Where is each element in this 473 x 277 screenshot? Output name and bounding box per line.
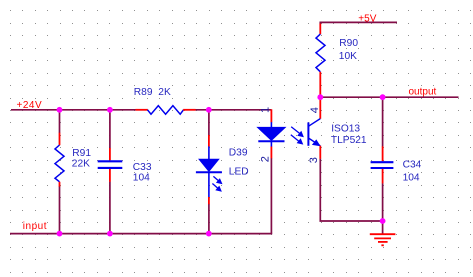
svg-text:D39: D39 <box>229 148 248 159</box>
svg-text:2K: 2K <box>158 87 171 98</box>
svg-text:input: input <box>23 221 47 232</box>
wire emitter to ground run <box>320 159 382 221</box>
wire C33 branch <box>109 110 111 234</box>
wire R91 branch <box>59 110 61 234</box>
wire C34 branch <box>382 97 384 221</box>
junction bottom D39 <box>206 231 212 237</box>
svg-text:10K: 10K <box>339 51 357 62</box>
wire D39 branch <box>208 110 210 234</box>
svg-text:output: output <box>409 86 437 97</box>
svg-text:LED: LED <box>229 167 249 178</box>
svg-text:R90: R90 <box>339 38 358 49</box>
capacitor C34 <box>371 146 422 183</box>
resistor R91 <box>55 133 91 187</box>
svg-text:C34: C34 <box>403 160 422 171</box>
junction bottom C33 <box>107 231 113 237</box>
ground <box>370 221 396 245</box>
svg-text:+24V: +24V <box>17 100 43 111</box>
junction output node <box>317 94 323 100</box>
wire +5V rail <box>320 22 397 24</box>
svg-text:22K: 22K <box>72 158 90 169</box>
svg-text:+5V: +5V <box>358 14 376 25</box>
resistor R90 <box>316 24 358 98</box>
svg-text:104: 104 <box>403 172 420 183</box>
wire output net <box>320 96 458 98</box>
svg-text:R91: R91 <box>72 148 91 159</box>
svg-text:TLP521: TLP521 <box>331 135 367 146</box>
junction top R91 <box>57 107 63 113</box>
opto LED of ISO13 (anode pin 1 / cathode pin 2) <box>258 109 286 158</box>
junction top C33 <box>107 107 113 113</box>
resistor R89 <box>134 87 196 114</box>
junction C34 bottom / ground <box>380 218 386 224</box>
wire opto LED branch corner <box>270 158 272 234</box>
svg-text:R89: R89 <box>134 87 153 98</box>
junction bottom R91 <box>57 231 63 237</box>
wire bottom rail input net <box>10 233 272 235</box>
svg-text:1: 1 <box>259 107 271 113</box>
LED D39 <box>196 135 249 204</box>
capacitor C33 <box>98 148 152 183</box>
opto transistor of ISO13 (collector pin 4 / emitter pin 3) <box>308 97 367 159</box>
svg-text:2: 2 <box>259 156 271 162</box>
svg-text:3: 3 <box>308 157 320 163</box>
svg-text:4: 4 <box>309 107 321 113</box>
junction top D39 <box>206 107 212 113</box>
opto light arrows <box>291 127 304 145</box>
svg-text:C33: C33 <box>133 162 152 173</box>
svg-text:ISO13: ISO13 <box>331 124 360 135</box>
junction C34 top <box>380 94 386 100</box>
wire top rail +24V net <box>11 109 271 111</box>
svg-text:104: 104 <box>133 172 150 183</box>
